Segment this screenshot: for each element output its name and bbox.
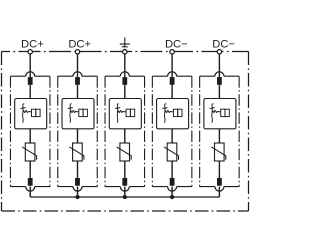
svg-text:DC−: DC− [165, 39, 188, 51]
wire disconnector to indicator, branch 2 [77, 85, 79, 99]
svg-text:DC−: DC− [212, 39, 235, 51]
svg-text:DC+: DC+ [21, 39, 44, 51]
wire varistor to bottom disconnector, branch 2 [77, 161, 79, 186]
wire indicator to varistor, branch 2 [77, 129, 79, 143]
disconnection-monitoring indicator U2 [62, 99, 94, 129]
thermal disconnector F5a (top) [215, 72, 224, 85]
wire disconnector to indicator, branch 5 [218, 85, 220, 99]
terminal X1 DC+ [28, 50, 32, 54]
wire varistor to bottom disconnector, branch 1 [29, 161, 31, 186]
wire varistor to bottom disconnector, branch 5 [218, 161, 220, 186]
module M1 enclosure [10, 76, 50, 186]
wire terminal to disconnector, branch 5 [218, 54, 220, 77]
wire terminal to disconnector, branch 4 [171, 54, 173, 77]
wire indicator to varistor, branch 3 [124, 129, 126, 143]
wire module to PE bus, branch 4 [171, 187, 173, 197]
wire indicator to varistor, branch 1 [29, 129, 31, 143]
junction on PE bus [123, 195, 127, 199]
varistor RV3 [117, 143, 132, 161]
disconnection-monitoring indicator U5 [204, 99, 236, 129]
terminal X4 DC- [170, 50, 174, 54]
wire disconnector to indicator, branch 1 [29, 85, 31, 99]
wire varistor to bottom disconnector, branch 4 [171, 161, 173, 186]
wire module to PE bus, branch 3 [124, 187, 126, 197]
wire terminal to disconnector, branch 1 [29, 54, 31, 77]
junction on PE bus [170, 195, 174, 199]
varistor RV4 [164, 143, 179, 161]
module M5 enclosure [200, 76, 240, 186]
junction on PE bus [75, 195, 79, 199]
wire module to PE bus, branch 1 [29, 187, 31, 197]
thermal disconnector F2a (top) [73, 72, 82, 85]
terminal X5 DC- [217, 50, 221, 54]
wire module to PE bus, branch 5 [218, 187, 220, 197]
terminal X2 DC+ [75, 50, 79, 54]
disconnection-monitoring indicator U1 [15, 99, 47, 129]
module M3 enclosure [105, 76, 145, 186]
terminal X3 PE [123, 50, 127, 54]
earth/PE symbol [120, 37, 130, 49]
thermal disconnector F2b (bottom) [73, 178, 82, 191]
thermal disconnector F4a (top) [168, 72, 177, 85]
thermal disconnector F3b (bottom) [120, 178, 129, 191]
wire disconnector to indicator, branch 3 [124, 85, 126, 99]
module M4 enclosure [152, 76, 192, 186]
wire indicator to varistor, branch 5 [218, 129, 220, 143]
varistor RV2 [69, 143, 84, 161]
wire indicator to varistor, branch 4 [171, 129, 173, 143]
wire varistor to bottom disconnector, branch 3 [124, 161, 126, 186]
module M2 enclosure [58, 76, 98, 186]
thermal disconnector F5b (bottom) [215, 178, 224, 191]
PE bus wire [30, 196, 219, 198]
wire terminal to disconnector, branch 3 [124, 54, 126, 77]
disconnection-monitoring indicator U3 [109, 99, 141, 129]
wire disconnector to indicator, branch 4 [171, 85, 173, 99]
device enclosure border (dash-dot) [2, 52, 249, 212]
thermal disconnector F1a (top) [26, 72, 35, 85]
varistor RV1 [22, 143, 36, 161]
wire terminal to disconnector, branch 2 [77, 54, 79, 77]
wire module to PE bus, branch 2 [77, 187, 79, 197]
thermal disconnector F1b (bottom) [26, 178, 35, 191]
varistor RV5 [211, 143, 226, 161]
thermal disconnector F4b (bottom) [168, 178, 177, 191]
thermal disconnector F3a (top) [120, 72, 129, 85]
disconnection-monitoring indicator U4 [157, 99, 189, 129]
svg-text:DC+: DC+ [68, 39, 91, 51]
